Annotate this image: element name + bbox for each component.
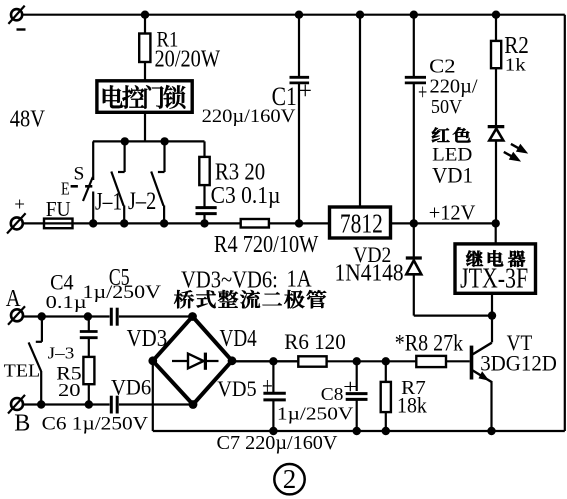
wire R3 branch upper xyxy=(203,141,205,207)
capacitor C7 plates xyxy=(263,393,285,400)
wire bridge right to R6 xyxy=(232,360,297,362)
capacitor C1 plates xyxy=(290,77,310,83)
transistor VT emitter diag xyxy=(473,370,493,382)
diode VD2 xyxy=(406,258,422,274)
wire B line left xyxy=(23,403,109,405)
capacitor C2 plates xyxy=(405,77,426,83)
node J-3 bottom xyxy=(37,400,45,408)
resistor R3 xyxy=(199,157,209,185)
svg-text:B: B xyxy=(14,409,30,436)
label 继电器 xyxy=(466,250,525,267)
node C4 top xyxy=(84,312,92,320)
svg-text:220µ/160V: 220µ/160V xyxy=(202,106,296,127)
transistor VT emitter arrow xyxy=(479,371,490,381)
node R5 bottom xyxy=(85,400,93,408)
resistor R4 xyxy=(241,219,269,228)
svg-text:50V: 50V xyxy=(431,96,463,118)
svg-text:TEL: TEL xyxy=(4,361,41,381)
svg-text:+: + xyxy=(262,373,273,400)
node top rail C2 xyxy=(410,11,418,19)
svg-text:18k: 18k xyxy=(397,394,427,418)
svg-text:*R8 27k: *R8 27k xyxy=(395,331,464,356)
svg-text:C4: C4 xyxy=(50,269,73,294)
svg-text:VD3: VD3 xyxy=(127,325,168,352)
wire VD2 vertical xyxy=(413,223,415,315)
node C1 bottom xyxy=(295,219,303,227)
terminal negative 48V xyxy=(8,6,25,31)
node top rail R2 xyxy=(492,11,500,19)
svg-text:A: A xyxy=(6,286,21,312)
svg-text:VD1: VD1 xyxy=(432,162,473,187)
svg-text:VD4: VD4 xyxy=(220,325,257,352)
wire R2 LED vertical xyxy=(495,15,497,224)
wire VD2 to collector node xyxy=(414,315,492,317)
svg-text:+12V: +12V xyxy=(429,201,476,225)
svg-text:E: E xyxy=(61,178,70,198)
capacitor C5 plates xyxy=(111,308,117,326)
wire box to switch rail xyxy=(144,112,146,142)
label bridge line2 xyxy=(174,290,326,308)
relay K JTX-3F box xyxy=(455,244,536,293)
wire C1 lower xyxy=(298,83,300,224)
svg-text:2: 2 xyxy=(283,464,297,494)
node C8 top xyxy=(353,357,361,365)
svg-text:3DG12D: 3DG12D xyxy=(480,351,557,376)
svg-text:1A: 1A xyxy=(287,265,312,292)
svg-text:+: + xyxy=(343,376,357,398)
capacitor C4 plates xyxy=(80,332,98,338)
resistor R5 xyxy=(83,357,94,384)
mech link dashes E to S xyxy=(71,185,93,188)
svg-text:48V: 48V xyxy=(10,105,45,132)
wire relay top xyxy=(495,223,497,243)
svg-text:C3 0.1µ: C3 0.1µ xyxy=(211,182,281,209)
LED VD1 xyxy=(488,127,505,141)
wire B line right xyxy=(119,403,193,405)
node top rail 7812 xyxy=(356,11,364,19)
capacitor C3 plates xyxy=(196,208,217,214)
resistor R8 xyxy=(416,356,446,367)
wire C4 upper xyxy=(88,317,90,332)
terminal B xyxy=(8,395,25,414)
wire C3 lower xyxy=(203,214,205,224)
wire mid positive rail xyxy=(23,222,330,224)
wire A line left xyxy=(23,315,109,317)
resistor R6 xyxy=(298,356,326,366)
node collector top xyxy=(488,311,496,319)
svg-text:220µ/: 220µ/ xyxy=(430,76,479,97)
svg-text:+: + xyxy=(418,79,427,105)
svg-text:VD3~VD6:: VD3~VD6: xyxy=(181,266,278,293)
wire switch rail xyxy=(93,140,205,142)
wire relay bottom xyxy=(491,293,493,316)
node bridge left xyxy=(148,356,157,365)
wire top negative 48V rail xyxy=(23,14,565,16)
switch J-3 xyxy=(29,317,42,405)
wire S upper xyxy=(92,141,94,180)
wire R1 vertical xyxy=(144,15,146,82)
wire C7 upper xyxy=(272,361,274,393)
switch S blade xyxy=(83,177,93,201)
node R7 top xyxy=(382,357,390,365)
svg-text:1µ/250V: 1µ/250V xyxy=(83,282,162,303)
svg-text:J–3: J–3 xyxy=(48,344,75,363)
svg-text:+: + xyxy=(14,195,25,216)
capacitor C8 plates xyxy=(346,394,368,400)
wire R5 lower xyxy=(88,384,90,404)
node +12V left xyxy=(410,219,418,227)
wire R7 upper xyxy=(385,361,387,382)
node bridge right xyxy=(228,356,237,365)
node J-2 top xyxy=(160,137,168,145)
bridge rectifier VD3-VD6 diamond xyxy=(153,317,232,405)
node emitter bottom xyxy=(487,427,495,435)
resistor R2 xyxy=(491,41,501,68)
svg-text:20: 20 xyxy=(58,380,81,400)
figure number 2 xyxy=(274,464,304,494)
svg-text:J–1: J–1 xyxy=(95,187,122,216)
switch J-1 xyxy=(111,141,124,223)
resistor R7 xyxy=(381,382,391,412)
svg-text:1k: 1k xyxy=(505,55,526,75)
svg-text:0.1µ: 0.1µ xyxy=(46,292,87,312)
node top rail R1 xyxy=(141,11,149,19)
node J-2 bottom xyxy=(160,219,168,227)
wire C8 upper xyxy=(356,361,358,391)
wire C8 lower xyxy=(356,399,358,431)
svg-text:JTX-3F: JTX-3F xyxy=(460,263,528,294)
wire 7812 top xyxy=(359,15,361,207)
resistor R1 xyxy=(139,34,150,63)
svg-text:20/20W: 20/20W xyxy=(155,45,221,72)
wire bridge left down xyxy=(152,361,154,431)
wire bottom ground rail xyxy=(153,430,565,432)
node C7 top xyxy=(269,357,277,365)
terminal positive xyxy=(7,213,26,233)
wire S lower xyxy=(92,192,94,224)
switch J-2 xyxy=(151,141,164,223)
svg-text:1µ/250V: 1µ/250V xyxy=(277,404,354,424)
node bridge bottom xyxy=(189,400,198,409)
node S bottom xyxy=(89,219,97,227)
svg-text:R4 720/10W: R4 720/10W xyxy=(214,231,319,258)
block electric door lock 电控门锁 xyxy=(97,81,192,113)
svg-text:S: S xyxy=(74,163,85,184)
node R7 bottom xyxy=(382,427,390,435)
fuse FU xyxy=(44,219,73,229)
node C7 bottom xyxy=(269,427,277,435)
wire R7 lower xyxy=(385,412,387,431)
svg-text:FU: FU xyxy=(46,197,71,221)
svg-text:VD6: VD6 xyxy=(111,374,151,399)
transistor VT collector diag xyxy=(473,343,492,355)
bridge inner diode xyxy=(172,353,219,370)
node J-1 bottom xyxy=(120,219,128,227)
svg-text:VD5: VD5 xyxy=(217,376,256,401)
wire C2 lower xyxy=(413,83,415,224)
wire A line right xyxy=(119,315,193,317)
svg-text:7812: 7812 xyxy=(340,207,383,238)
svg-text:1N4148: 1N4148 xyxy=(335,259,404,286)
node C8 bottom xyxy=(353,427,361,435)
wire base xyxy=(446,360,470,362)
wire C4 to R5 xyxy=(88,338,90,357)
wire C2 upper xyxy=(413,15,415,77)
label red 红色 xyxy=(432,127,471,142)
svg-text:C6 1µ/250V: C6 1µ/250V xyxy=(42,413,148,434)
node +12V right xyxy=(492,219,500,227)
transistor VT base bar xyxy=(470,346,474,380)
node J-1 top xyxy=(121,137,129,145)
node top rail C1 xyxy=(295,11,303,19)
LED arrows xyxy=(504,144,528,162)
capacitor C6 plates xyxy=(111,396,117,414)
terminal A xyxy=(8,306,25,325)
wire right edge vertical xyxy=(564,15,566,431)
node C3 bottom xyxy=(200,219,208,227)
label 电控门锁 xyxy=(103,85,186,109)
svg-text:C2: C2 xyxy=(429,57,455,78)
wire 7812 output xyxy=(391,222,496,224)
node J-3 top xyxy=(38,312,46,320)
wire C7 lower xyxy=(272,400,274,431)
wire collector vertical xyxy=(491,316,493,343)
svg-text:J–2: J–2 xyxy=(128,186,156,215)
wire C1 upper xyxy=(298,15,300,77)
wire out line xyxy=(232,360,416,362)
svg-text:C8: C8 xyxy=(321,384,344,404)
node bridge top xyxy=(188,312,197,321)
svg-text:C7 220µ/160V: C7 220µ/160V xyxy=(217,433,338,454)
wire emitter vertical xyxy=(490,382,492,431)
svg-text:+: + xyxy=(299,78,312,105)
svg-text:R6 120: R6 120 xyxy=(284,330,345,354)
regulator U 7812 xyxy=(330,207,391,238)
